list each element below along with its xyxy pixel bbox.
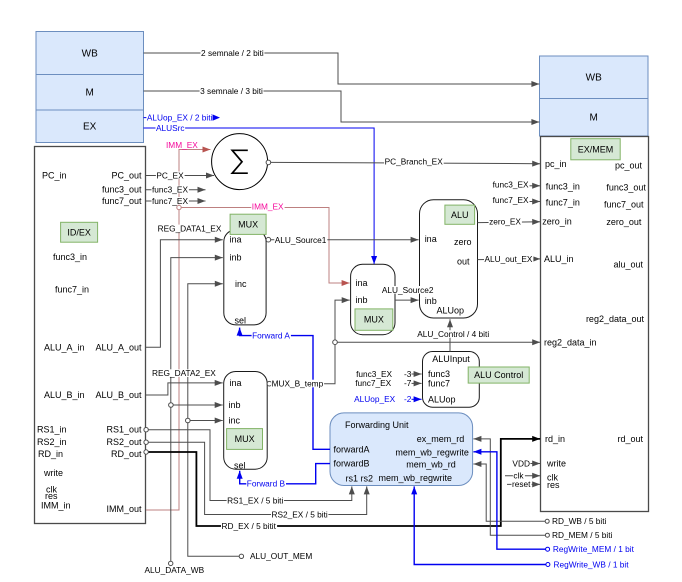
wire func7_EX stub left [146,200,206,202]
wire RegWrite_MEM [473,452,545,549]
wire REG_DATA1_EX [146,240,223,348]
svg-text:rd_in: rd_in [545,434,565,444]
svg-text:inb: inb [425,296,437,306]
svg-text:ALUSrc: ALUSrc [156,123,185,133]
svg-text:ALU_DATA_WB: ALU_DATA_WB [145,565,205,575]
svg-text:ALUop: ALUop [428,394,456,404]
svg-text:inb: inb [229,400,241,410]
svg-text:zero_EX: zero_EX [489,217,521,227]
register block ID/EX [35,147,146,524]
svg-text:RD_out: RD_out [111,449,142,459]
svg-text:MUX: MUX [238,219,258,229]
svg-text:ALU_Source1: ALU_Source1 [275,235,327,245]
svg-text:PC_EX: PC_EX [156,170,184,180]
svg-text:func7_EX: func7_EX [355,378,391,388]
wire 2 semnale WB [144,53,540,84]
pipeline register EX/MEM right stack WB box [540,56,649,99]
svg-text:RD_MEM / 5 biti: RD_MEM / 5 biti [552,530,613,540]
svg-text:3 semnale / 3 biti: 3 semnale / 3 biti [200,86,263,96]
mux M2 ALU source B [351,264,395,334]
wire Forward A [240,328,330,450]
svg-text:RS2_EX / 5 biti: RS2_EX / 5 biti [271,509,327,519]
node ALU_DATA_WB [169,561,173,565]
svg-text:pc_out: pc_out [615,161,643,171]
svg-text:ALUop_EX / 2 biti: ALUop_EX / 2 biti [147,112,213,122]
wire MUX_B_temp to mux M2 inb [272,300,350,384]
wire ALU_out_EX [478,258,541,261]
svg-text:zero_in: zero_in [542,217,572,227]
svg-text:func7_out: func7_out [102,196,142,206]
svg-text:ALU Control: ALU Control [474,370,523,380]
wire PC_EX [146,175,214,177]
label ALU Control [468,367,529,383]
mux M3 forwarding B [224,372,268,470]
node MUX_B_temp [267,381,272,386]
svg-text:M: M [86,88,94,99]
register block EX/MEM [541,137,649,512]
svg-text:func3_in: func3_in [53,252,87,262]
svg-text:inc: inc [229,416,241,426]
wire zero_EX [478,221,541,224]
wire ALU_DATA_WB branch to mux M3 inb [171,404,223,406]
svg-text:func3_EX: func3_EX [152,185,188,195]
svg-text:func7_EX: func7_EX [152,196,188,206]
svg-text:RD_EX / 5 bitit: RD_EX / 5 bitit [221,521,276,531]
svg-text:mem_wb_regwrite: mem_wb_regwrite [378,473,452,483]
pipeline register ID/EX left stack EX box [36,110,144,143]
wire RS1_EX [148,430,352,501]
node sigma output [266,160,271,165]
svg-text:inc: inc [235,279,247,289]
svg-text:func3_out: func3_out [102,185,142,195]
svg-text:EX: EX [83,122,97,133]
svg-text:RS1_out: RS1_out [106,425,142,435]
wire RD_EX [148,439,540,526]
node RD_MEM [545,533,549,537]
svg-text:write: write [546,459,566,469]
mux M1 ALU source A [224,230,266,325]
node ALU_OUT_MEM [239,554,243,558]
node ALU_Source1 [266,237,271,242]
wire ALU_OUT_MEM [188,284,239,557]
svg-text:-7: -7 [404,378,412,388]
node RegWrite_WB [546,563,550,567]
svg-text:func7_in: func7_in [55,285,89,295]
svg-text:RegWrite_MEM / 1 bit: RegWrite_MEM / 1 bit [553,544,635,554]
svg-text:func7: func7 [428,378,450,388]
wire ALU_OUT_MEM branch to mux M3 inc [188,420,223,422]
svg-text:ex_mem_rd: ex_mem_rd [417,434,465,444]
junction ALU_DATA_WB inb [169,403,174,408]
svg-text:ALU_B_in: ALU_B_in [44,390,85,400]
svg-text:rs1 rs2: rs1 rs2 [346,473,374,483]
wire RD_WB [473,464,545,521]
svg-text:mem_wb_regwrite: mem_wb_regwrite [395,447,469,457]
svg-text:ALU_Source2: ALU_Source2 [382,285,434,295]
svg-text:2 semnale / 2 biti: 2 semnale / 2 biti [201,48,264,58]
pipeline register ID/EX left stack M box [36,75,144,111]
node RegWrite_MEM [546,547,550,551]
svg-text:forwardB: forwardB [334,459,370,469]
svg-text:RS2_in: RS2_in [37,437,67,447]
label backgrounds [146,49,533,530]
pipeline register EX/MEM right stack M box [540,99,649,137]
svg-text:PC_Branch_EX: PC_Branch_EX [385,157,444,167]
svg-text:out: out [457,256,470,266]
svg-text:zero_out: zero_out [606,217,642,227]
svg-text:RD_WB / 5 biti: RD_WB / 5 biti [552,516,607,526]
wire func7_EX stub right [528,201,541,203]
svg-text:zero: zero [454,237,472,247]
svg-text:func3_EX: func3_EX [493,179,529,189]
label ID/EX [61,222,98,242]
svg-text:ALU_in: ALU_in [544,254,574,264]
svg-text:ina: ina [356,278,368,288]
svg-text:sel: sel [234,461,246,471]
wire ALU_Control to ALU ALUop [449,319,451,351]
svg-text:ALU: ALU [451,210,469,220]
svg-text:VDD: VDD [512,458,530,468]
svg-text:write: write [43,468,63,478]
svg-text:ID/EX: ID/EX [67,227,91,237]
svg-text:forwardA: forwardA [334,444,370,454]
svg-text:RegWrite_WB / 1 bit: RegWrite_WB / 1 bit [554,559,630,569]
svg-text:ina: ina [425,234,437,244]
svg-text:pc_in: pc_in [545,159,567,169]
svg-text:ALU_Control / 4 biti: ALU_Control / 4 biti [417,329,489,339]
svg-text:MUX_B_temp: MUX_B_temp [272,379,324,389]
wire IMM_EX branch to mux M2 [179,208,350,284]
svg-text:RS1_EX / 5 biti: RS1_EX / 5 biti [227,495,283,505]
svg-text:MUX: MUX [235,434,255,444]
svg-text:WB: WB [82,49,98,60]
svg-text:reg2_data_in: reg2_data_in [544,338,597,348]
svg-text:func7_EX: func7_EX [493,195,529,205]
node RS1_out [144,428,148,432]
svg-text:func7_in: func7_in [546,198,580,208]
adder U1 (sigma) [212,134,268,190]
svg-text:func3_out: func3_out [606,183,646,193]
svg-text:Forwarding Unit: Forwarding Unit [345,420,409,430]
wire ALUop_EX stub [144,117,212,119]
wire RegWrite_WB [414,486,546,564]
svg-text:alu_out: alu_out [613,259,643,269]
wire PC_Branch_EX [271,162,541,163]
svg-text:IMM_in: IMM_in [41,500,71,510]
svg-text:Forward B: Forward B [247,479,286,489]
svg-text:ALUInput: ALUInput [432,354,470,364]
svg-text:RS2_out: RS2_out [106,437,142,447]
svg-text:WB: WB [586,73,602,84]
svg-text:inb: inb [356,295,368,305]
wire func3_EX stub right [528,185,541,187]
svg-text:func7_out: func7_out [604,199,644,209]
svg-text:ALU_A_out: ALU_A_out [95,342,142,352]
svg-text:-2: -2 [404,394,412,404]
svg-text:ALU_A_in: ALU_A_in [44,342,85,352]
svg-text:IMM_out: IMM_out [106,504,142,514]
wire ALUop 2-bit stub [412,398,422,400]
alu control U3 ALUInput [423,352,480,408]
label MUX M3 [227,429,263,450]
svg-text:M: M [590,113,598,124]
svg-text:mem_wb_rd: mem_wb_rd [406,459,456,469]
svg-text:ALUop_EX: ALUop_EX [354,394,396,404]
label ALU [445,205,475,224]
svg-text:reg2_data_out: reg2_data_out [586,314,645,324]
wire REG_DATA2_EX [146,383,223,395]
wire func7 7-bit stub [412,382,422,384]
svg-text:EX/MEM: EX/MEM [578,144,614,154]
wire ALU_DATA_WB [171,258,223,562]
svg-text:ina: ina [230,235,242,245]
junction IMM_EX [177,205,181,209]
wire VDD stub [530,463,541,465]
wire MUX_B_temp branch to reg2_data_in [335,341,540,343]
wire RD_MEM [473,439,545,535]
junction MUX_B_temp reg2 [333,340,338,345]
wire func3_EX stub left [146,189,206,191]
svg-text:PC_out: PC_out [111,171,142,181]
svg-text:ALU_B_out: ALU_B_out [95,390,142,400]
wire reset stub [507,483,540,485]
svg-text:res: res [547,480,560,490]
svg-text:IMM_EX: IMM_EX [166,140,198,150]
svg-text:Forward A: Forward A [252,330,290,340]
label MUX M1 [230,214,266,234]
wire 3 semnale M [144,91,540,122]
pipeline register ID/EX left stack WB box [36,32,144,75]
wire func3 3-bit stub [412,373,422,375]
svg-text:inb: inb [230,253,242,263]
svg-text:ina: ina [230,378,242,388]
wire ALU_Source1 [271,239,419,241]
wire ALUSrc [144,128,375,264]
wire ALU_Source2 [395,299,419,301]
svg-text:PC_in: PC_in [42,171,67,181]
label MUX M2 [355,309,393,330]
svg-text:ALUop: ALUop [437,306,465,316]
svg-text:reset: reset [512,479,531,489]
svg-text:rd_out: rd_out [617,434,643,444]
forwarding unit U4 [330,413,473,486]
node RD_WB [545,519,549,523]
wire clk stub [505,475,540,477]
svg-text:ALU_OUT_MEM: ALU_OUT_MEM [250,551,312,561]
svg-text:ALU_out_EX: ALU_out_EX [485,254,533,264]
svg-text:func3_in: func3_in [546,182,580,192]
wire Forward B [240,464,330,484]
svg-text:RS1_in: RS1_in [37,425,67,435]
svg-text:RD_in: RD_in [38,449,63,459]
wire ALUop_EX stub arrowhead [213,114,221,120]
svg-text:IMM_EX: IMM_EX [252,201,284,211]
wire RS2_EX [148,442,367,514]
node RS2_out [144,440,148,444]
svg-text:REG_DATA1_EX: REG_DATA1_EX [158,223,222,233]
node RD_out [144,450,148,454]
alu U2 [420,200,478,318]
junction ALU_OUT_MEM inc [186,418,191,423]
svg-text:REG_DATA2_EX: REG_DATA2_EX [152,368,216,378]
svg-text:sel: sel [235,315,247,325]
label EX/MEM [571,139,620,160]
wire IMM_EX main [146,150,211,511]
svg-text:MUX: MUX [364,315,384,325]
